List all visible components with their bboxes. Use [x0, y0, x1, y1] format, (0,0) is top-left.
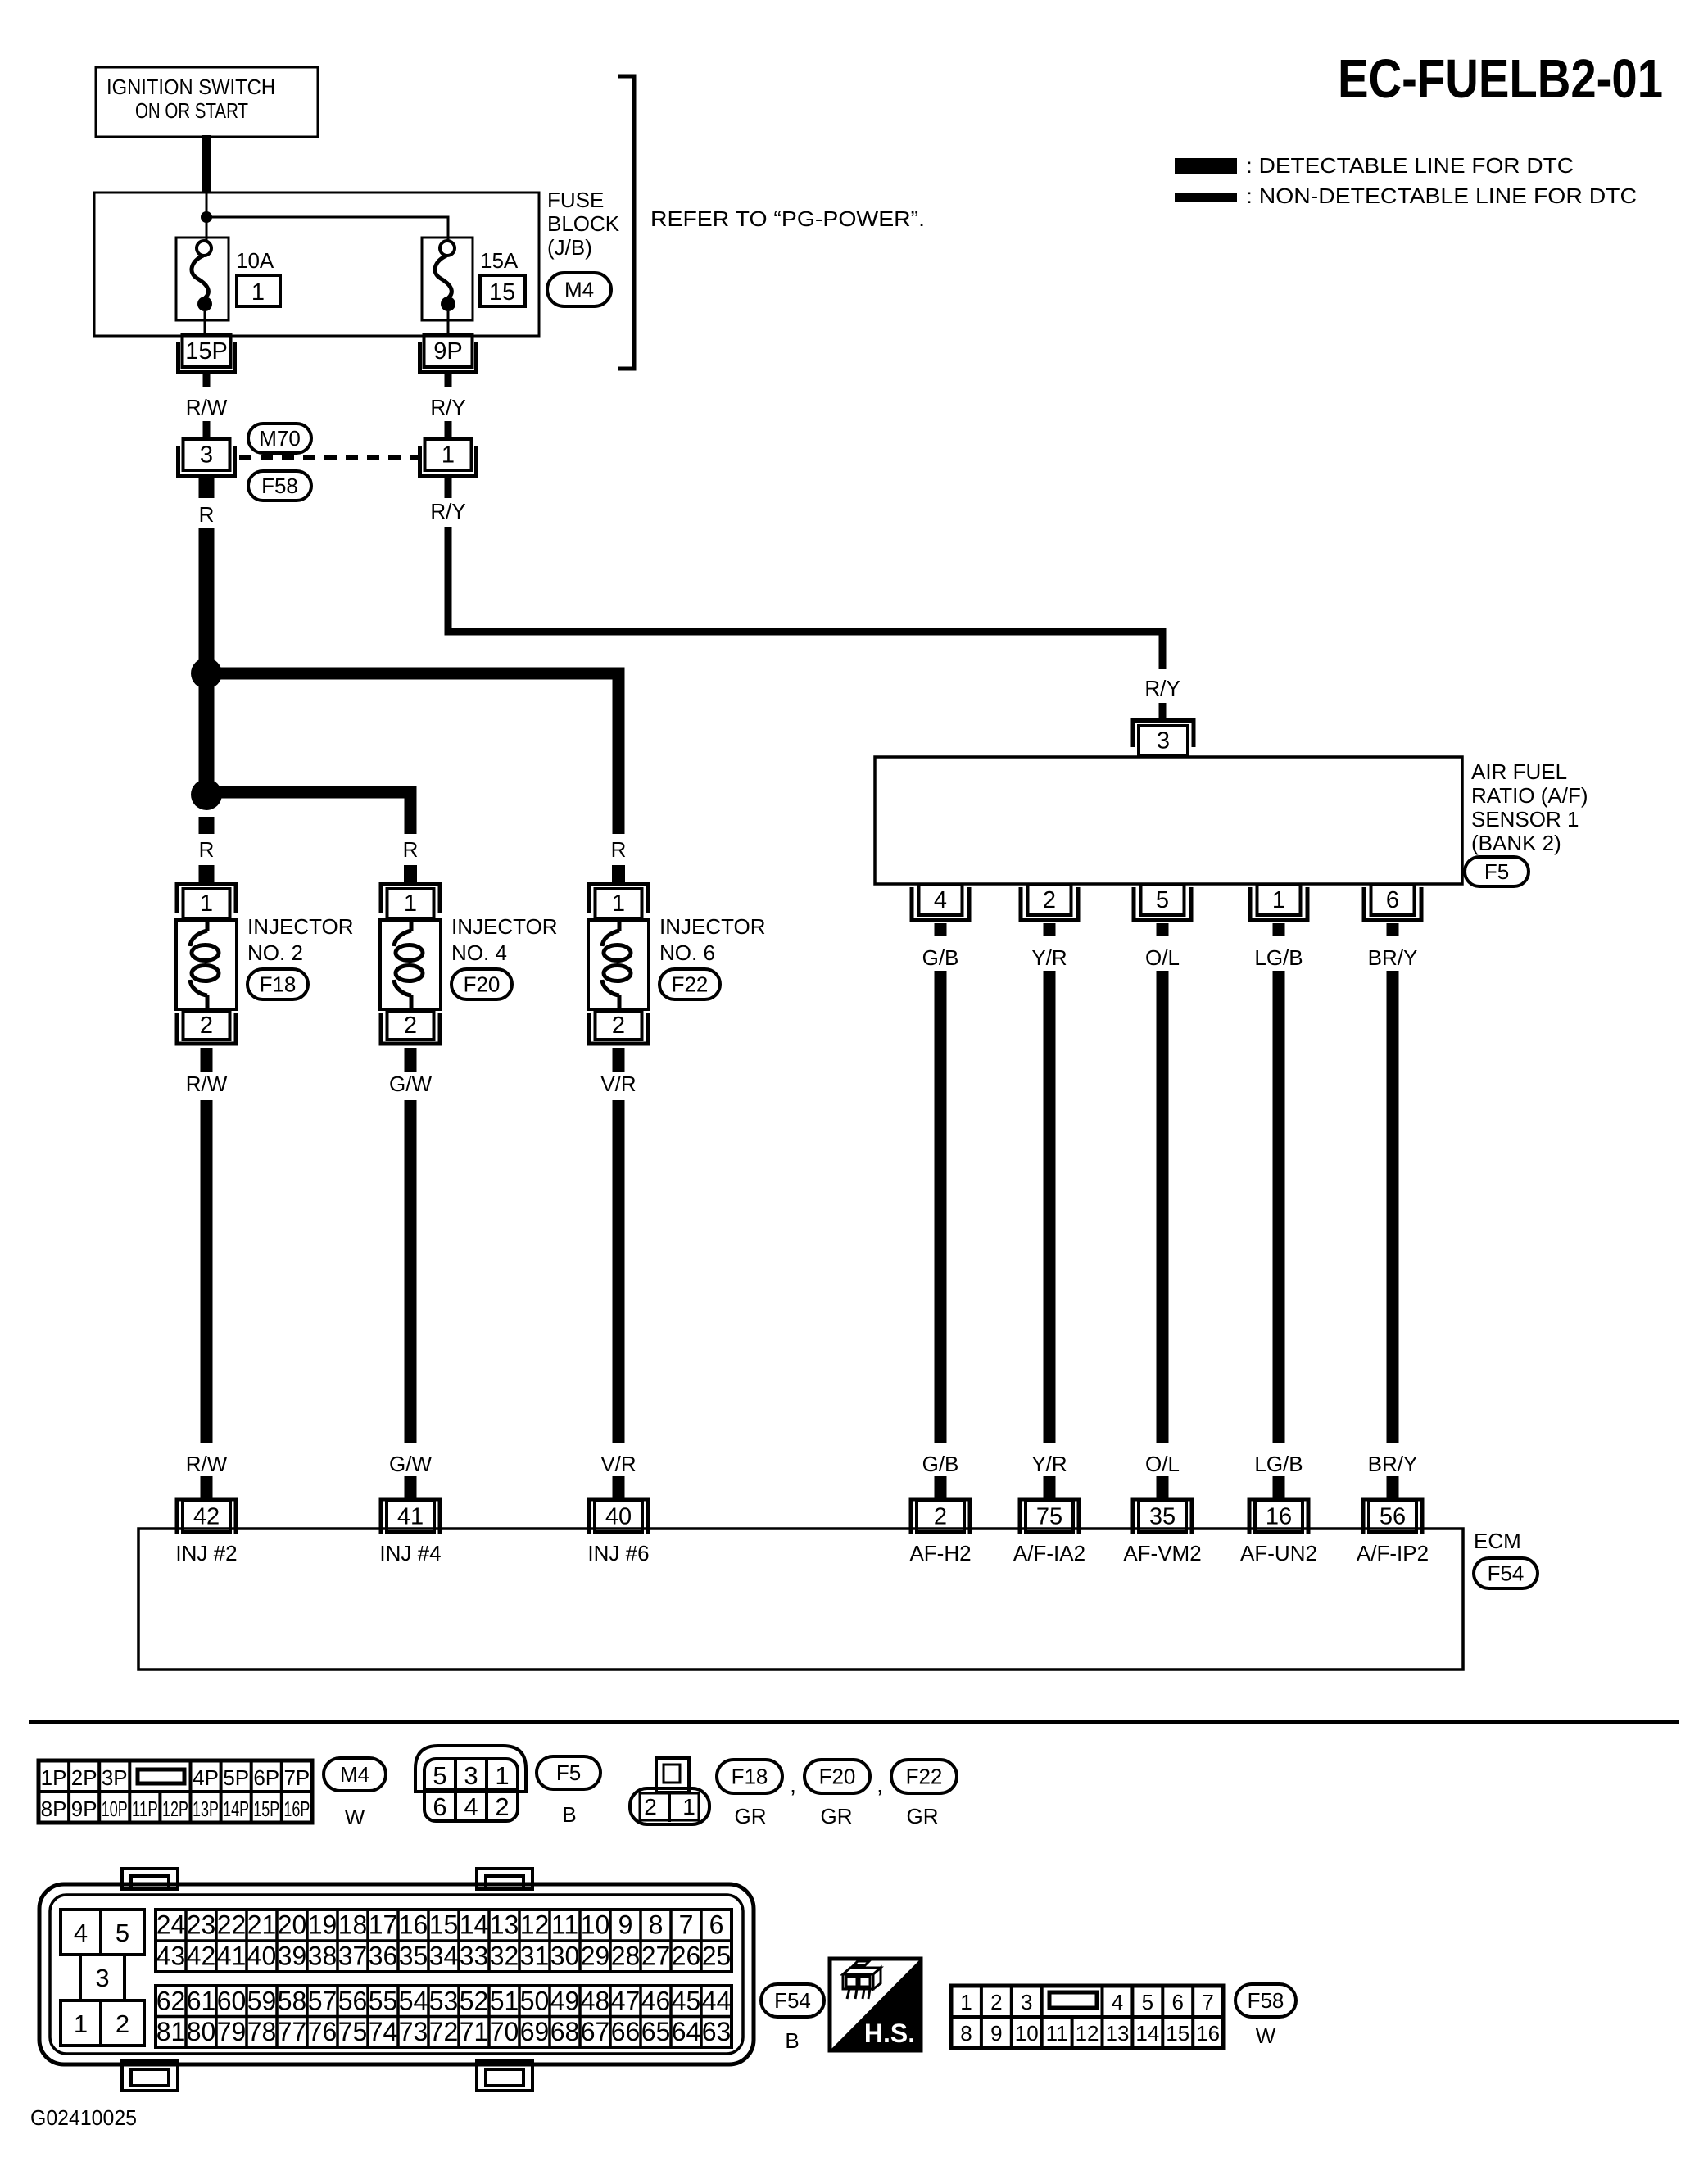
svg-text:1: 1 — [1272, 887, 1285, 913]
svg-text:26: 26 — [672, 1942, 701, 1971]
label R (below pin 3) — [199, 502, 215, 527]
svg-text:69: 69 — [520, 2017, 550, 2046]
connector ECM pin 2 — [911, 1499, 970, 1534]
figure number G02410025 — [30, 2105, 137, 2130]
svg-text:16: 16 — [1266, 1504, 1292, 1530]
svg-text:79: 79 — [217, 2017, 247, 2046]
label INJECTOR NO. 4 — [451, 914, 558, 965]
svg-text:BLOCK: BLOCK — [547, 211, 620, 236]
connector M70/F58 pin 1 — [420, 439, 477, 477]
svg-text:15A: 15A — [480, 248, 519, 273]
svg-text:1: 1 — [74, 2010, 88, 2038]
connector ref F20 oval (footer) — [804, 1760, 870, 1793]
svg-text:47: 47 — [611, 1986, 641, 2015]
svg-text:1: 1 — [682, 1794, 695, 1819]
svg-text:6: 6 — [1386, 887, 1399, 913]
connector ref F18 oval — [247, 969, 308, 999]
svg-text:,: , — [790, 1772, 796, 1797]
svg-text:: NON-DETECTABLE LINE FOR DTC: : NON-DETECTABLE LINE FOR DTC — [1246, 184, 1637, 208]
label R/Y (above sensor pin 3) — [1144, 676, 1180, 700]
connector ECM pin 16 — [1249, 1499, 1308, 1534]
svg-text:4P: 4P — [193, 1765, 219, 1790]
svg-text:23: 23 — [187, 1910, 216, 1940]
label GR (F20 color) — [821, 1804, 853, 1828]
svg-text:B: B — [562, 1802, 576, 1827]
wire Y/R to ECM pin — [1044, 1476, 1056, 1498]
wire R/W to ECM pin — [201, 1476, 213, 1498]
dashed link between pin 3 and pin 1 — [239, 455, 420, 460]
svg-text:66: 66 — [611, 2017, 641, 2046]
svg-text:7: 7 — [1202, 1990, 1213, 2014]
svg-text:48: 48 — [581, 1986, 610, 2015]
svg-text:INJ #2: INJ #2 — [175, 1541, 237, 1566]
label R/W (above ECM) — [186, 1452, 228, 1476]
svg-text:10: 10 — [581, 1910, 610, 1940]
svg-text:2: 2 — [116, 2010, 129, 2038]
svg-text:F20: F20 — [819, 1765, 856, 1789]
connector ref F22 oval (footer) — [891, 1760, 957, 1793]
connector ECM pin 56 — [1363, 1499, 1422, 1534]
svg-text:M70: M70 — [259, 426, 301, 451]
svg-text:F18: F18 — [732, 1765, 768, 1789]
wire sensor pin 2 stub — [1044, 923, 1056, 936]
label B (F5 color) — [562, 1802, 576, 1827]
svg-text:44: 44 — [702, 1986, 732, 2015]
svg-text:2: 2 — [612, 1013, 625, 1039]
svg-text:10A: 10A — [236, 248, 274, 273]
wire G/W long run — [405, 1100, 417, 1443]
connector ref F5 oval — [1465, 857, 1529, 886]
svg-text:4: 4 — [1112, 1990, 1123, 2014]
svg-text:35: 35 — [399, 1942, 428, 1971]
svg-text:8: 8 — [960, 2021, 972, 2046]
svg-text:10: 10 — [1015, 2021, 1039, 2046]
svg-text:13P: 13P — [193, 1797, 219, 1821]
svg-text:27: 27 — [641, 1942, 671, 1971]
svg-text:4: 4 — [934, 887, 947, 913]
svg-text:58: 58 — [278, 1986, 307, 2015]
label R/Y (fuse leg) — [430, 395, 465, 419]
svg-text:V/R: V/R — [600, 1072, 636, 1096]
svg-text:EC-FUELB2-01: EC-FUELB2-01 — [1338, 48, 1663, 110]
svg-text:36: 36 — [369, 1942, 398, 1971]
svg-text:1: 1 — [200, 890, 213, 917]
svg-text:12P: 12P — [162, 1797, 188, 1821]
svg-text:(BANK 2): (BANK 2) — [1471, 831, 1561, 855]
svg-text:RATIO (A/F): RATIO (A/F) — [1471, 783, 1588, 808]
svg-text:M4: M4 — [340, 1762, 369, 1787]
connector ref F18 oval (footer) — [717, 1760, 782, 1793]
svg-text:42: 42 — [187, 1942, 216, 1971]
wire label R/W to connector 3 — [203, 421, 211, 439]
svg-text:F54: F54 — [1488, 1561, 1525, 1586]
label AF-H2 (ECM) — [909, 1541, 971, 1566]
svg-text:B: B — [785, 2028, 799, 2053]
label Y/R (below sensor) — [1031, 945, 1067, 970]
svg-text:80: 80 — [187, 2017, 216, 2046]
label Y/R (above ECM) — [1031, 1452, 1067, 1476]
svg-text:7P: 7P — [283, 1765, 310, 1790]
svg-text:5: 5 — [1156, 887, 1169, 913]
svg-text:INJ #4: INJ #4 — [379, 1541, 441, 1566]
wire injector pin2 (G/W) — [405, 1048, 417, 1072]
connector sensor pin 4 — [912, 885, 969, 920]
svg-text:G/B: G/B — [922, 945, 959, 970]
connector sensor pin 1 — [1250, 885, 1307, 920]
wire below pin 1 — [445, 478, 452, 498]
svg-text:1: 1 — [495, 1761, 509, 1790]
title EC-FUELB2-01 — [1338, 48, 1663, 110]
svg-text:INJECTOR: INJECTOR — [451, 914, 558, 939]
svg-text:NO. 4: NO. 4 — [451, 940, 507, 965]
separator line — [29, 1720, 1679, 1724]
svg-text:60: 60 — [217, 1986, 247, 2015]
wire injector pin2 (R/W) — [201, 1048, 213, 1072]
svg-text:73: 73 — [399, 2017, 428, 2046]
svg-text:49: 49 — [550, 1986, 580, 2015]
svg-text:6P: 6P — [253, 1765, 279, 1790]
connector ref M4 oval (footer) — [324, 1758, 386, 1791]
svg-text:(J/B): (J/B) — [547, 235, 592, 260]
svg-text:43: 43 — [156, 1942, 186, 1971]
svg-text:F5: F5 — [1484, 859, 1509, 884]
svg-text:5P: 5P — [223, 1765, 249, 1790]
connector 15P — [179, 335, 235, 373]
svg-text:AF-UN2: AF-UN2 — [1240, 1541, 1317, 1566]
svg-text:13: 13 — [1105, 2021, 1129, 2046]
label BR/Y (below sensor) — [1368, 945, 1418, 970]
svg-text:68: 68 — [550, 2017, 580, 2046]
connector ECM pin 75 — [1020, 1499, 1079, 1534]
label O/L (below sensor) — [1145, 945, 1180, 970]
connector ref F54 oval — [1474, 1558, 1538, 1588]
svg-text:29: 29 — [581, 1942, 610, 1971]
wire 9P to label R/Y — [445, 374, 452, 387]
svg-text:4: 4 — [74, 1919, 88, 1947]
connector sensor pin 6 — [1364, 885, 1421, 920]
svg-text:W: W — [345, 1805, 365, 1829]
label A/F-IP2 (ECM) — [1357, 1541, 1429, 1566]
wire R/W long run — [201, 1100, 213, 1443]
connector ref F58 oval (footer) — [1235, 1984, 1296, 2017]
svg-text:16P: 16P — [283, 1797, 310, 1821]
wire LG/B to ECM pin — [1273, 1476, 1285, 1498]
fuse 15A symbol — [422, 238, 473, 335]
svg-text:F54: F54 — [774, 1988, 811, 2013]
svg-text:W: W — [1256, 2023, 1276, 2048]
connector ref F58 oval — [248, 471, 311, 501]
wire V/R to ECM pin — [613, 1476, 625, 1498]
injector no.2 (coil) — [176, 885, 237, 1044]
svg-text:LG/B: LG/B — [1254, 945, 1303, 970]
svg-text:2P: 2P — [71, 1765, 97, 1790]
svg-text:70: 70 — [490, 2017, 519, 2046]
svg-text:25: 25 — [702, 1942, 732, 1971]
svg-text:41: 41 — [397, 1504, 424, 1530]
svg-text:AF-VM2: AF-VM2 — [1123, 1541, 1201, 1566]
svg-text:O/L: O/L — [1145, 945, 1180, 970]
label BR/Y (above ECM) — [1368, 1452, 1418, 1476]
svg-text:1: 1 — [960, 1990, 972, 2014]
svg-text:F18: F18 — [260, 972, 297, 997]
svg-text:4: 4 — [464, 1792, 478, 1821]
svg-text:30: 30 — [550, 1942, 580, 1971]
svg-text:2: 2 — [990, 1990, 1002, 2014]
label G/W (below injector) — [389, 1072, 432, 1096]
svg-text:H.S.: H.S. — [864, 2019, 915, 2048]
svg-text:R/W: R/W — [186, 1072, 228, 1096]
svg-text:37: 37 — [338, 1942, 368, 1971]
svg-text:3: 3 — [1157, 728, 1170, 754]
wire label R to injector no.2 — [199, 865, 215, 882]
wire O/L long run — [1157, 971, 1169, 1443]
svg-text:39: 39 — [278, 1942, 307, 1971]
H.S. view mark — [830, 1959, 921, 2050]
svg-text:1: 1 — [442, 442, 455, 469]
label V/R (above ECM) — [600, 1452, 636, 1476]
svg-text:16: 16 — [1196, 2021, 1220, 2046]
label R (above injector no.2) — [199, 837, 215, 862]
svg-text:51: 51 — [490, 1986, 519, 2015]
svg-text:2: 2 — [200, 1013, 213, 1039]
svg-text:42: 42 — [193, 1504, 220, 1530]
svg-text:NO. 2: NO. 2 — [247, 940, 303, 965]
svg-text:BR/Y: BR/Y — [1368, 1452, 1418, 1476]
label GR (F22 color) — [907, 1804, 939, 1828]
fuse number box 15 — [480, 275, 525, 306]
svg-text:56: 56 — [338, 1986, 368, 2015]
ECM connector grid upper (pins 6-43) — [156, 1910, 732, 1972]
svg-text:64: 64 — [672, 2017, 701, 2046]
svg-text:INJ #6: INJ #6 — [587, 1541, 649, 1566]
wire LG/B long run — [1273, 971, 1285, 1443]
svg-text:14: 14 — [1135, 2021, 1159, 2046]
label INJ #6 (ECM) — [587, 1541, 649, 1566]
svg-text:50: 50 — [520, 1986, 550, 2015]
wire sensor pin 1 stub — [1273, 923, 1285, 936]
svg-text:22: 22 — [217, 1910, 247, 1940]
wire injector pin2 (V/R) — [613, 1048, 625, 1072]
svg-text:ON OR START: ON OR START — [135, 98, 248, 123]
wire G/B long run — [935, 971, 947, 1443]
svg-text:45: 45 — [672, 1986, 701, 2015]
wire 15P to label R/W — [203, 374, 211, 387]
svg-text:AF-H2: AF-H2 — [909, 1541, 971, 1566]
wire Y/R long run — [1044, 971, 1056, 1443]
svg-text:V/R: V/R — [600, 1452, 636, 1476]
svg-text:G/B: G/B — [922, 1452, 959, 1476]
svg-text:54: 54 — [399, 1986, 428, 2015]
label 10A — [236, 248, 274, 273]
legend non-detectable line — [1175, 184, 1637, 208]
svg-text:46: 46 — [641, 1986, 671, 2015]
wire BR/Y to ECM pin — [1387, 1476, 1399, 1498]
label R/W (fuse leg) — [186, 395, 228, 419]
connector ref F54 oval (footer) — [761, 1984, 824, 2017]
svg-text:9: 9 — [618, 1910, 633, 1940]
svg-text:72: 72 — [429, 2017, 459, 2046]
svg-text:65: 65 — [641, 2017, 671, 2046]
svg-text:63: 63 — [702, 2017, 732, 2046]
wire BR/Y long run — [1387, 971, 1399, 1443]
svg-text:G02410025: G02410025 — [30, 2105, 137, 2130]
svg-text:2: 2 — [934, 1504, 947, 1530]
svg-text:R/W: R/W — [186, 395, 228, 419]
label LG/B (below sensor) — [1254, 945, 1303, 970]
svg-text:6: 6 — [1172, 1990, 1184, 2014]
svg-text:1: 1 — [404, 890, 417, 917]
connector ref M70 oval — [248, 424, 311, 453]
svg-text:41: 41 — [217, 1942, 247, 1971]
svg-text:67: 67 — [581, 2017, 610, 2046]
svg-text:R/Y: R/Y — [430, 395, 465, 419]
svg-text:ECM: ECM — [1474, 1529, 1521, 1553]
svg-text:8P: 8P — [41, 1797, 67, 1821]
wire label R to injector no.6 — [612, 865, 625, 882]
label INJECTOR NO. 6 — [659, 914, 766, 965]
connector sensor pin 2 — [1021, 885, 1078, 920]
label B (F54 color) — [785, 2028, 799, 2053]
svg-text:R: R — [611, 837, 627, 862]
connector ref M4 oval — [547, 273, 611, 306]
svg-text:Y/R: Y/R — [1031, 1452, 1067, 1476]
svg-text:F58: F58 — [261, 474, 298, 498]
svg-text:7: 7 — [679, 1910, 694, 1940]
svg-text:12: 12 — [520, 1910, 550, 1940]
svg-text:34: 34 — [429, 1942, 459, 1971]
connector ECM pin 41 — [381, 1499, 440, 1534]
ECM connector housing (F54) — [39, 1869, 754, 2091]
wire sensor pin 6 stub — [1387, 923, 1399, 936]
svg-text:12: 12 — [1076, 2021, 1099, 2046]
svg-text:9: 9 — [990, 2021, 1002, 2046]
label R/W (below injector) — [186, 1072, 228, 1096]
svg-text:2: 2 — [495, 1792, 509, 1821]
label O/L (above ECM) — [1145, 1452, 1180, 1476]
svg-text:O/L: O/L — [1145, 1452, 1180, 1476]
svg-text:: DETECTABLE LINE FOR DTC: : DETECTABLE LINE FOR DTC — [1246, 153, 1574, 178]
svg-text:32: 32 — [490, 1942, 519, 1971]
connector 9P — [420, 335, 477, 373]
wire branch junction B to injector no.4 — [206, 786, 417, 835]
svg-text:M4: M4 — [564, 278, 594, 302]
svg-text:A/F-IP2: A/F-IP2 — [1357, 1541, 1429, 1566]
connector ECM pin 35 — [1133, 1499, 1192, 1534]
svg-text:FUSE: FUSE — [547, 188, 604, 212]
wire sensor pin 5 stub — [1157, 923, 1169, 936]
svg-text:38: 38 — [308, 1942, 338, 1971]
wire dash below junction B — [199, 817, 215, 834]
wire sensor pin 4 stub — [935, 923, 947, 936]
svg-text:53: 53 — [429, 1986, 459, 2015]
svg-text:R: R — [199, 837, 215, 862]
svg-text:15: 15 — [1166, 2021, 1189, 2046]
wire O/L to ECM pin — [1157, 1476, 1169, 1498]
svg-text:3: 3 — [1021, 1990, 1032, 2014]
label ECM — [1474, 1529, 1521, 1553]
wire branch junction A to injector no.6 — [206, 668, 625, 835]
label REFER TO PG-POWER — [650, 206, 925, 231]
label R (above injector no.4) — [403, 837, 419, 862]
svg-text:6: 6 — [433, 1792, 446, 1821]
wire G/W to ECM pin — [405, 1476, 417, 1498]
svg-text:R: R — [199, 502, 215, 527]
ignition switch box — [96, 67, 318, 137]
wire G/B to ECM pin — [935, 1476, 947, 1498]
connector M70/F58 pin 3 — [179, 439, 235, 477]
svg-text:1P: 1P — [41, 1765, 67, 1790]
svg-text:R: R — [403, 837, 419, 862]
wire junction to fuse 15A — [206, 217, 448, 242]
svg-text:R/W: R/W — [186, 1452, 228, 1476]
svg-text:9P: 9P — [71, 1797, 97, 1821]
svg-text:61: 61 — [187, 1986, 216, 2015]
svg-text:74: 74 — [369, 2017, 398, 2046]
svg-text:3: 3 — [464, 1761, 478, 1790]
label AIR FUEL RATIO (A/F) SENSOR 1 (BANK 2) — [1471, 759, 1588, 855]
svg-text:59: 59 — [247, 1986, 277, 2015]
svg-text:AIR FUEL: AIR FUEL — [1471, 759, 1567, 784]
label GR (F18 color) — [735, 1804, 767, 1828]
svg-text:14: 14 — [460, 1910, 489, 1940]
svg-text:6: 6 — [709, 1910, 724, 1940]
svg-text:1: 1 — [251, 279, 265, 306]
svg-text:R/Y: R/Y — [430, 499, 465, 523]
svg-text:35: 35 — [1149, 1504, 1176, 1530]
svg-text:15: 15 — [429, 1910, 459, 1940]
svg-text:Y/R: Y/R — [1031, 945, 1067, 970]
svg-text:SENSOR 1: SENSOR 1 — [1471, 807, 1579, 831]
junction node B — [191, 779, 222, 810]
svg-text:G/W: G/W — [389, 1072, 432, 1096]
bracket refer to PG-POWER — [618, 76, 634, 369]
label R/Y (below pin 1) — [430, 499, 465, 523]
fuse 10A symbol — [176, 238, 229, 335]
label INJ #2 (ECM) — [175, 1541, 237, 1566]
junction node in fuse block — [201, 211, 212, 223]
svg-text:15P: 15P — [185, 338, 228, 365]
svg-text:F20: F20 — [464, 972, 501, 997]
svg-text:INJECTOR: INJECTOR — [247, 914, 354, 939]
label W (M4 color) — [345, 1805, 365, 1829]
svg-text:GR: GR — [907, 1804, 939, 1828]
svg-text:75: 75 — [338, 2017, 368, 2046]
label INJECTOR NO. 2 — [247, 914, 354, 965]
svg-text:NO. 6: NO. 6 — [659, 940, 715, 965]
connector M4 pin grid — [39, 1760, 312, 1823]
label 15A — [480, 248, 519, 273]
label W (F58 color) — [1256, 2023, 1276, 2048]
comma 1 — [790, 1772, 796, 1797]
svg-text:40: 40 — [605, 1504, 632, 1530]
svg-text:3: 3 — [95, 1964, 109, 1992]
connector ECM pin 40 — [589, 1499, 648, 1534]
svg-text:24: 24 — [156, 1910, 186, 1940]
svg-text:G/W: G/W — [389, 1452, 432, 1476]
svg-text:33: 33 — [460, 1942, 489, 1971]
svg-text:LG/B: LG/B — [1254, 1452, 1303, 1476]
label R (above injector no.6) — [611, 837, 627, 862]
svg-text:75: 75 — [1036, 1504, 1062, 1530]
comma 2 — [877, 1772, 883, 1797]
wire ignition switch to fuse block — [202, 135, 211, 193]
svg-text:76: 76 — [308, 2017, 338, 2046]
svg-text:9P: 9P — [433, 338, 462, 365]
fuse block box — [94, 193, 539, 336]
svg-text:8: 8 — [649, 1910, 664, 1940]
wire R main run — [199, 528, 215, 808]
svg-text:A/F-IA2: A/F-IA2 — [1013, 1541, 1085, 1566]
